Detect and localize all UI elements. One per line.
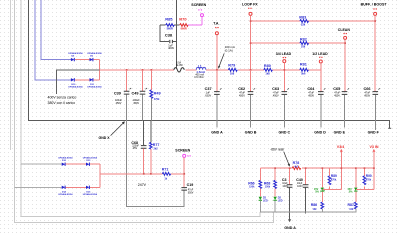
- svg-text:GND A: GND A: [284, 226, 296, 230]
- svg-text:R89: R89: [331, 174, 337, 178]
- svg-text:450V: 450V: [308, 94, 314, 97]
- wire BUFF drop: [374, 15, 376, 91]
- svg-text:GND F: GND F: [368, 131, 380, 135]
- junction dots 24V rail: [143, 173, 185, 175]
- resistor R83: [300, 20, 309, 23]
- ground arrow at bus end: [388, 127, 391, 129]
- svg-text:0.6 Ohm: 0.6 Ohm: [194, 76, 204, 79]
- capacitor C19: [183, 174, 185, 187]
- capacitor C37: [216, 70, 218, 91]
- zener DZ1: [321, 168, 323, 187]
- svg-text:R49: R49: [154, 92, 161, 96]
- resistor R82: [300, 42, 309, 45]
- wire CLEAN drop: [344, 39, 346, 91]
- wire T.A. drop: [216, 35, 218, 70]
- wire heater A (left vertical, bottom run): [15, 0, 274, 223]
- diode D12 bridge2 row1: [62, 163, 65, 166]
- wire bias rail: [260, 167, 374, 169]
- svg-text:UF5404-E3/54: UF5404-E3/54: [68, 86, 83, 89]
- resistor R71: [162, 172, 170, 175]
- diode D6 bridge1 row1: [71, 58, 74, 61]
- svg-text:R70: R70: [179, 17, 187, 22]
- svg-text:UF5404-E3/54: UF5404-E3/54: [68, 52, 83, 55]
- wire branch1 to BUFF: [251, 20, 376, 22]
- LED D3: [273, 197, 276, 201]
- svg-text:UF5404-E3/54: UF5404-E3/54: [58, 193, 73, 196]
- svg-text:GND B: GND B: [245, 131, 257, 135]
- wire bridge2 row1: [21, 163, 62, 165]
- svg-text:450V: 450V: [133, 102, 139, 105]
- net V3/4: [340, 151, 342, 168]
- wire transformer blue 1: [41, 0, 71, 60]
- svg-text:450V: 450V: [116, 102, 122, 105]
- svg-text:UF5404-E3/54: UF5404-E3/54: [83, 193, 98, 196]
- capacitor C63: [282, 92, 288, 95]
- svg-text:LED: LED: [263, 199, 268, 202]
- svg-text:C19: C19: [187, 183, 194, 187]
- svg-text:GND X: GND X: [99, 136, 111, 140]
- capacitor C64: [318, 92, 324, 95]
- svg-text:25V: 25V: [133, 147, 138, 150]
- resistor R70: [180, 24, 189, 27]
- svg-text:GND D: GND D: [314, 131, 326, 135]
- svg-text:LOOP FX: LOOP FX: [242, 2, 258, 6]
- svg-text:R87: R87: [348, 203, 354, 207]
- svg-text:GND A: GND A: [211, 131, 223, 135]
- svg-text:10k: 10k: [349, 208, 354, 211]
- svg-text:560R: 560R: [167, 26, 173, 30]
- resistor R66 branch: [259, 168, 261, 180]
- resistor R78: [292, 167, 301, 170]
- wire screen divider feed vertical (dark): [176, 0, 178, 69]
- capacitor C65: [342, 92, 348, 95]
- svg-text:C49: C49: [132, 92, 139, 96]
- svg-text:4k7: 4k7: [294, 165, 299, 168]
- wire gnd collect lower right: [260, 211, 356, 213]
- wire R85 R70 divider horizontal: [160, 24, 180, 26]
- resistor R68 branch: [274, 168, 276, 180]
- svg-text:R78: R78: [293, 161, 300, 165]
- svg-text:247V: 247V: [138, 183, 147, 187]
- svg-text:560R: 560R: [181, 26, 187, 30]
- capacitor C38 plates: [170, 40, 173, 43]
- ground GND A arrow: [288, 219, 291, 222]
- resistor R49: [150, 70, 152, 90]
- svg-text:C63: C63: [272, 87, 279, 91]
- svg-text:BUFF. / BOOST: BUFF. / BOOST: [361, 2, 388, 6]
- wire transformer blue 2: [35, 0, 71, 80]
- svg-text:470k: 470k: [154, 98, 160, 101]
- svg-text:GND C: GND C: [279, 131, 291, 135]
- svg-text:5k6: 5k6: [301, 71, 306, 75]
- wire heater B (left vertical, bottom run): [21, 0, 260, 217]
- svg-text:GND E: GND E: [334, 131, 346, 135]
- svg-text:L1: L1: [198, 65, 202, 69]
- svg-text:10k: 10k: [301, 45, 306, 49]
- wire bridge2 output: [99, 173, 101, 175]
- svg-text:SLOW: SLOW: [176, 65, 184, 67]
- diode D15 bridge2 row2: [86, 186, 89, 189]
- capacitor C39: [126, 70, 128, 91]
- svg-text:R80: R80: [264, 64, 271, 68]
- svg-text:UF5404-E3/54: UF5404-E3/54: [87, 86, 102, 89]
- svg-text:C64: C64: [307, 87, 315, 91]
- zener DZ2: [355, 168, 357, 187]
- svg-text:350V: 350V: [188, 191, 194, 194]
- svg-text:R90: R90: [366, 174, 372, 178]
- svg-text:2k2: 2k2: [154, 148, 159, 151]
- capacitor C66: [373, 92, 379, 95]
- svg-text:630V: 630V: [205, 94, 211, 97]
- diode D13 bridge2 row1: [86, 163, 89, 166]
- svg-text:C39: C39: [114, 92, 121, 96]
- LED D2: [259, 197, 262, 201]
- svg-text:3/4 LEAD: 3/4 LEAD: [276, 52, 292, 56]
- svg-text:450V: 450V: [364, 94, 370, 97]
- svg-text:470k: 470k: [366, 178, 372, 181]
- capacitor C3: [289, 168, 291, 184]
- diode D11 bridge1 row2: [90, 78, 93, 81]
- wire GND X bus (dark): [29, 0, 390, 128]
- resistor R90 loop: [363, 168, 365, 176]
- junction dots bias rail: [274, 167, 375, 169]
- wire C38 loop: [160, 25, 177, 42]
- svg-text:T.A.: T.A.: [213, 22, 219, 26]
- svg-text:LED: LED: [278, 199, 283, 202]
- resistor R79: [228, 68, 237, 71]
- svg-text:UF5404-E3/54: UF5404-E3/54: [87, 52, 102, 55]
- resistor R81: [300, 68, 309, 71]
- svg-text:C66: C66: [364, 87, 371, 91]
- svg-text:C62: C62: [238, 87, 245, 91]
- resistor R87: [354, 202, 357, 209]
- svg-text:(0.1A): (0.1A): [225, 49, 233, 53]
- svg-text:450V: 450V: [239, 94, 245, 97]
- svg-text:100V: 100V: [282, 185, 288, 188]
- svg-text:C65: C65: [333, 87, 340, 91]
- svg-text:150k: 150k: [265, 186, 271, 189]
- diode D10 bridge1 row2: [71, 78, 74, 81]
- svg-text:R82: R82: [300, 37, 307, 41]
- svg-text:R83: R83: [299, 15, 306, 19]
- wire bridge1 row1 red segments: [75, 60, 100, 80]
- svg-text:470k: 470k: [331, 178, 337, 181]
- inductor L1: [196, 67, 206, 69]
- svg-text:R85: R85: [165, 17, 173, 22]
- svg-text:UF5404-E3/54: UF5404-E3/54: [58, 157, 73, 160]
- svg-text:1k8: 1k8: [265, 71, 270, 75]
- wire lower box C68 routing: [127, 121, 185, 207]
- resistor R77: [150, 121, 152, 143]
- svg-text:UF5404-E3/54: UF5404-E3/54: [83, 157, 98, 160]
- resistor R86: [321, 202, 324, 209]
- svg-text:10k: 10k: [313, 208, 318, 211]
- diode D9 bridge1 row1: [90, 58, 93, 61]
- svg-text:22k: 22k: [301, 23, 306, 27]
- svg-text:150k: 150k: [249, 186, 255, 189]
- wire screen drop: [183, 157, 185, 173]
- svg-text:380V con il carico: 380V con il carico: [48, 101, 76, 105]
- svg-text:R79: R79: [228, 64, 235, 68]
- svg-text:100V: 100V: [297, 185, 303, 188]
- svg-text:400V: 400V: [168, 46, 174, 50]
- svg-text:450V: 450V: [273, 94, 279, 97]
- wire LOOP FX vertical: [250, 15, 252, 91]
- capacitor C49: [142, 70, 144, 91]
- net V3 IN: [373, 151, 375, 168]
- diode D14 bridge2 row2: [62, 186, 65, 189]
- wire 1/2 LEAD drop: [320, 63, 322, 91]
- wire bridge2 row2: [15, 186, 62, 188]
- svg-text:1/2 LEAD: 1/2 LEAD: [312, 52, 328, 56]
- wire bridge1 center feed gray: [57, 70, 100, 94]
- svg-text:SCREEN: SCREEN: [175, 148, 190, 152]
- capacitor C68: [143, 121, 145, 146]
- capacitor C40: [305, 168, 307, 184]
- junction dots rail: [126, 20, 376, 70]
- capacitor C62: [250, 70, 252, 91]
- svg-text:V3 IN: V3 IN: [370, 145, 379, 149]
- wire main HT rail: [100, 69, 321, 71]
- svg-text:CLEAN: CLEAN: [338, 28, 351, 32]
- wire heater aux vertical left: [10, 0, 12, 150]
- svg-text:R77: R77: [153, 143, 160, 147]
- svg-text:R81: R81: [300, 62, 307, 66]
- svg-text:R71: R71: [162, 168, 169, 172]
- svg-text:SCREEN: SCREEN: [191, 3, 206, 7]
- wire 24V rail lower: [100, 173, 184, 175]
- svg-text:C38: C38: [165, 32, 173, 37]
- svg-text:400V senza carico: 400V senza carico: [48, 96, 77, 100]
- resistor R89 loop: [329, 168, 331, 176]
- svg-text:R86: R86: [311, 203, 317, 207]
- svg-text:-66V reali: -66V reali: [270, 147, 284, 151]
- svg-text:1k8: 1k8: [230, 71, 235, 75]
- resistor R80: [264, 68, 273, 71]
- fuse F1: [174, 68, 185, 72]
- svg-text:V3/4: V3/4: [337, 145, 344, 149]
- svg-text:450V: 450V: [334, 94, 340, 97]
- wire bridge1 row2 red segments: [75, 79, 100, 81]
- wire 3/4 LEAD drop: [283, 63, 285, 92]
- resistor R85: [166, 24, 175, 27]
- svg-text:C37: C37: [205, 87, 212, 91]
- wire branch2 to CLEAN: [251, 42, 346, 44]
- wire magenta to screen connector: [188, 17, 202, 25]
